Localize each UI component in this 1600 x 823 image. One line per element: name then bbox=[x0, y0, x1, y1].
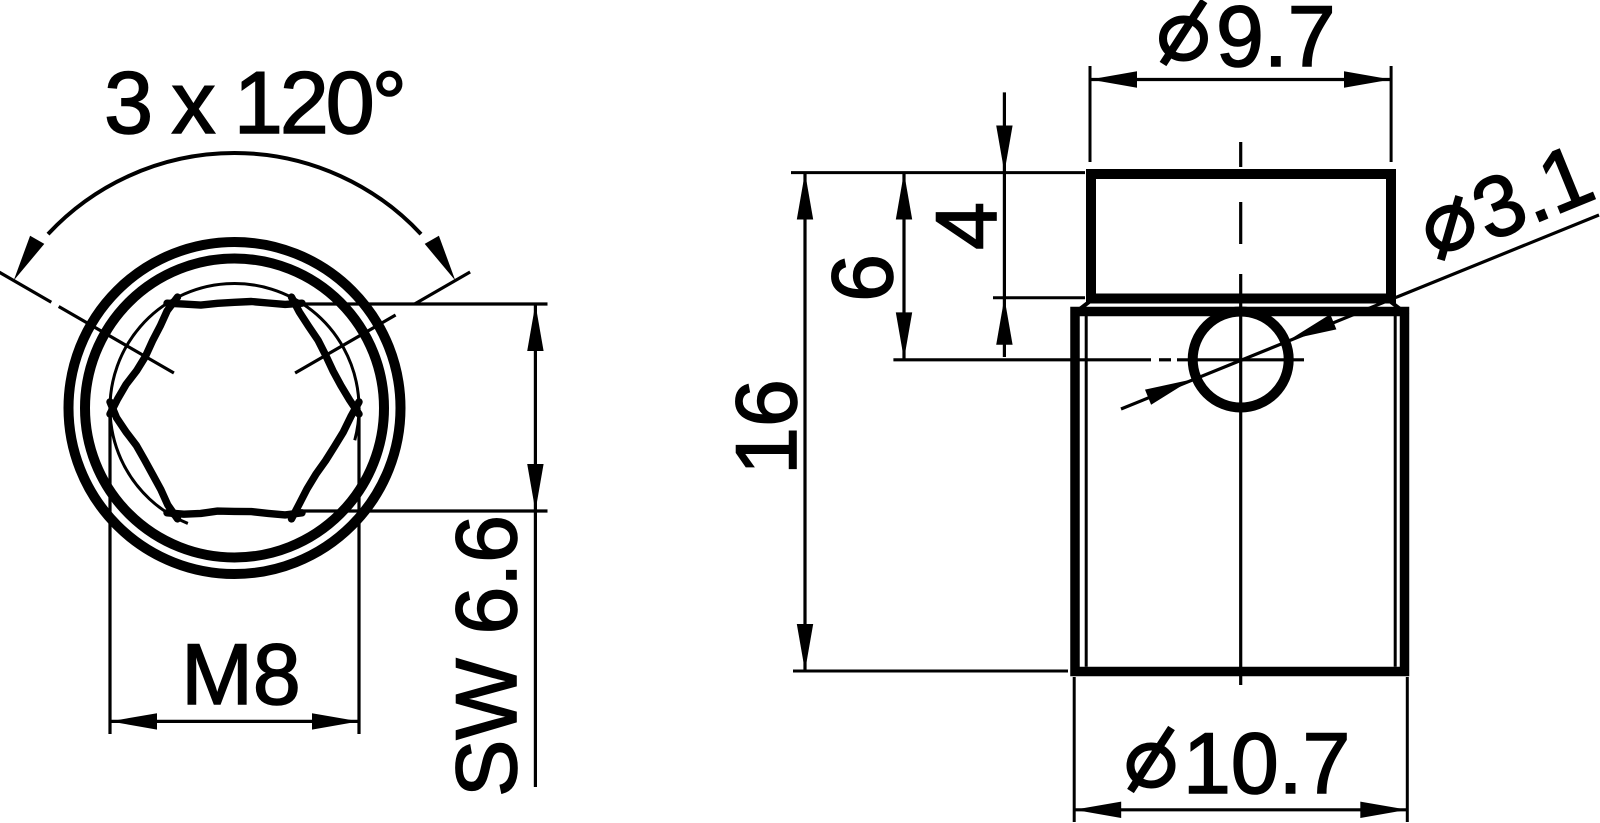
Ø10.7 extension line left bbox=[1073, 677, 1076, 822]
dim 16 arrow down bbox=[797, 624, 813, 671]
dim 16 line bbox=[803, 173, 806, 672]
dim 4 line bbox=[1003, 92, 1006, 357]
dim 16 arrow up bbox=[797, 173, 813, 220]
vertical centerline bbox=[1239, 142, 1242, 167]
M8 dimension line bbox=[110, 720, 359, 723]
svg-text:4: 4 bbox=[919, 202, 1015, 250]
svg-text:9.7: 9.7 bbox=[1216, 0, 1336, 85]
SW 6.6 dimension line bbox=[534, 304, 537, 787]
angle extension line left inner segment bbox=[59, 307, 174, 374]
Ø10.7 arrow right bbox=[1360, 802, 1407, 818]
Ø9.7 extension line left bbox=[1089, 66, 1092, 162]
dim 4 arrow down bbox=[996, 126, 1012, 173]
angle extension line right inner segment bbox=[295, 315, 396, 373]
angle extension line right outer segment bbox=[415, 272, 471, 304]
dim 6 arrow up bbox=[896, 173, 912, 220]
Ø10.7 arrow left bbox=[1074, 802, 1121, 818]
M8 arrow left bbox=[110, 713, 157, 729]
svg-text:10.7: 10.7 bbox=[1183, 716, 1350, 812]
Ø9.7 extension line right bbox=[1390, 66, 1393, 162]
M8 arrow right bbox=[312, 713, 359, 729]
Ø9.7 dimension line bbox=[1090, 78, 1391, 81]
upper cylinder Ø9.7 outline bbox=[1091, 174, 1391, 299]
SW arrow up bbox=[527, 304, 543, 351]
svg-text:16: 16 bbox=[719, 379, 815, 475]
dim 4 extension line bottom bbox=[993, 296, 1085, 299]
dim 16 extension line bottom bbox=[793, 670, 1068, 673]
M8 extension line right bbox=[357, 408, 360, 734]
label Ø10.7 bbox=[1131, 716, 1351, 812]
SW arrow down bbox=[527, 464, 543, 511]
Ø3.1 arrow lower bbox=[1145, 380, 1192, 405]
M8 extension line left bbox=[108, 408, 111, 734]
shoulder chamfer right bbox=[1391, 302, 1408, 315]
dim 6 extension line (hole center) bbox=[893, 358, 1151, 361]
dim 4 arrow up bbox=[996, 298, 1012, 345]
cross hole Ø3.1 bbox=[1193, 312, 1289, 408]
SW 6.6 extension line top bbox=[298, 302, 548, 305]
hole horizontal centerline bbox=[1159, 358, 1171, 361]
angle extension line left outer segment bbox=[0, 272, 51, 302]
dim 6 arrow down bbox=[896, 312, 912, 359]
Ø10.7 dimension line bbox=[1074, 808, 1407, 811]
SW 6.6 extension line bottom bbox=[300, 509, 548, 512]
svg-text:M8: M8 bbox=[181, 627, 300, 723]
top extension line (16/6/4) bbox=[791, 171, 1085, 174]
dim 6 line bbox=[902, 173, 905, 360]
svg-text:3 x 120°: 3 x 120° bbox=[104, 53, 404, 152]
hex socket SW 6.6 (wavy thread-tapped edges) bbox=[292, 297, 360, 414]
Ø9.7 arrow left bbox=[1090, 71, 1137, 87]
Ø3.1 leader line bbox=[1121, 215, 1599, 409]
arc arrowhead left bbox=[14, 236, 45, 281]
chamfer circle bbox=[85, 259, 384, 558]
angle dimension arc 3 x 120deg bbox=[48, 153, 421, 234]
svg-text:SW 6.6: SW 6.6 bbox=[439, 515, 535, 797]
shoulder chamfer left bbox=[1072, 302, 1089, 315]
arc arrowhead right bbox=[425, 236, 456, 281]
Ø10.7 extension line right bbox=[1406, 677, 1409, 822]
svg-text:6: 6 bbox=[815, 254, 911, 302]
thread root line left bbox=[1085, 316, 1088, 667]
label Ø3.1 bbox=[1412, 126, 1600, 279]
thread root line right bbox=[1394, 316, 1397, 667]
label Ø9.7 bbox=[1163, 0, 1336, 85]
Ø9.7 arrow right bbox=[1344, 71, 1391, 87]
thread M8 major-diameter thin arc bbox=[110, 283, 359, 523]
Ø3.1 arrow upper bbox=[1290, 314, 1337, 339]
lower cylinder Ø10.7 outline bbox=[1075, 312, 1405, 672]
outer circle Ø10.7 body bbox=[69, 242, 401, 574]
